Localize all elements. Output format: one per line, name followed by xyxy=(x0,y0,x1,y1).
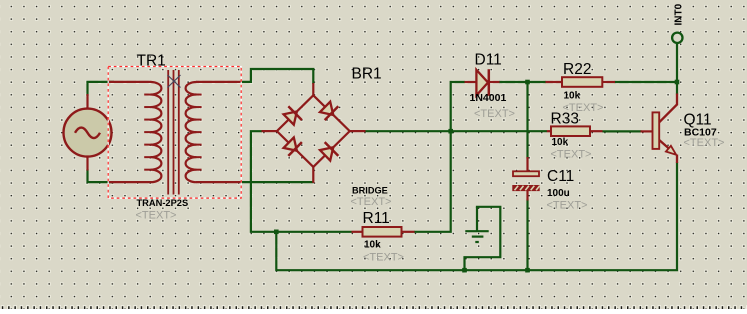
svg-text:<TEXT>: <TEXT> xyxy=(351,196,392,208)
wire R11 right lead up to bridge+ row xyxy=(414,131,451,232)
transformer TR1 selection box xyxy=(108,67,241,199)
svg-text:<TEXT>: <TEXT> xyxy=(547,200,588,212)
wire transformer secondary top to bridge top vertex xyxy=(240,69,313,84)
wire AC source bottom to transformer primary bottom xyxy=(88,169,115,182)
junction ground symbol on bottom rail xyxy=(462,268,467,273)
wire bridge left vertex down to R11 row (DC- rail) xyxy=(251,131,352,232)
AC voltage source xyxy=(64,94,112,171)
junction bridge+ / D11 anode / R11 xyxy=(448,129,453,134)
svg-text:<TEXT>: <TEXT> xyxy=(136,210,177,222)
wire ground symbol to bottom rail xyxy=(465,207,501,270)
wire D11 cathode to R22 junction xyxy=(499,81,546,83)
svg-text:R33: R33 xyxy=(551,111,579,128)
svg-text:R11: R11 xyxy=(363,210,390,227)
svg-text:C11: C11 xyxy=(547,168,574,185)
svg-text:D11: D11 xyxy=(475,52,502,69)
wire C11 bottom lead to ground rail xyxy=(526,200,528,271)
svg-text:R22: R22 xyxy=(563,61,591,78)
wire bridge+ junction up to D11 anode xyxy=(451,82,465,131)
transformer TR1 xyxy=(109,70,241,195)
svg-text:100u: 100u xyxy=(547,188,570,199)
svg-text:TR1: TR1 xyxy=(137,53,166,70)
bridge diode D1 (left to top) xyxy=(282,105,304,127)
svg-text:BR1: BR1 xyxy=(352,66,382,83)
diode D11 xyxy=(465,69,500,96)
transistor Q11 (NPN) xyxy=(641,94,678,164)
wire transformer secondary bottom to bridge bottom vertex xyxy=(240,181,313,183)
resistor R22 xyxy=(546,77,616,87)
junction D11 cathode / R22 / C11 top xyxy=(525,80,530,85)
wire AC source top to transformer primary top xyxy=(88,82,115,96)
resistor R11 xyxy=(352,227,415,237)
svg-text:INT0: INT0 xyxy=(674,3,685,25)
terminal INT0 xyxy=(672,33,682,43)
wire R33 right lead to Q11 base xyxy=(603,130,642,132)
bridge diode D2 (top to right) xyxy=(318,100,340,122)
bridge diode D3 (left to bottom) xyxy=(282,136,304,158)
svg-text:10k: 10k xyxy=(564,91,581,102)
bridge diode D4 (bottom to right) xyxy=(318,140,340,162)
junction C11 bottom on bottom rail xyxy=(525,268,530,273)
junction INT0 / R22 / collector xyxy=(675,80,680,85)
wire R22 right lead to INT0 junction xyxy=(615,81,678,83)
svg-text:BRIDGE: BRIDGE xyxy=(352,186,388,196)
wire bridge right vertex to R33 left lead xyxy=(365,130,547,132)
wire INT0 terminal stem xyxy=(676,43,678,82)
resistor R33 xyxy=(547,126,603,136)
junction DC- rail / R11 left / bottom rail xyxy=(274,230,279,235)
capacitor C11 (electrolytic) xyxy=(512,157,539,201)
wire Q11 emitter down to bottom rail and ground rail xyxy=(276,162,677,270)
svg-text:<TEXT>: <TEXT> xyxy=(684,137,725,149)
bridge rectifier BR1 xyxy=(262,83,366,183)
ground xyxy=(465,207,488,242)
transformer primary marker X xyxy=(168,75,181,88)
svg-text:<TEXT>: <TEXT> xyxy=(474,108,515,120)
svg-text:1N4001: 1N4001 xyxy=(470,92,507,104)
svg-text:<TEXT>: <TEXT> xyxy=(551,149,592,161)
svg-text:TRAN-2P2S: TRAN-2P2S xyxy=(137,198,189,208)
svg-text:10k: 10k xyxy=(364,240,381,251)
wire junction down to Q11 collector xyxy=(676,82,678,95)
svg-text:<TEXT>: <TEXT> xyxy=(363,252,404,264)
svg-text:10k: 10k xyxy=(552,137,569,148)
wire junction down through C11 column xyxy=(526,82,528,159)
